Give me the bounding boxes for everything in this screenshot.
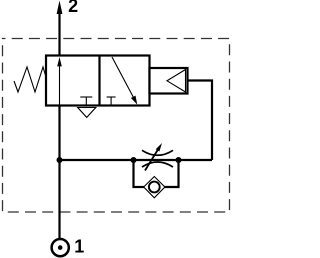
valve U1 body <box>46 56 150 106</box>
valve right-position blocked port T <box>107 96 116 98</box>
junction node right of throttle <box>176 157 182 163</box>
port 1 center dot <box>58 245 63 250</box>
check valve ball <box>149 182 160 193</box>
wire: bypass bottom left segment <box>133 186 147 188</box>
exhaust vent triangle port 3 <box>78 108 96 118</box>
pilot actuator box <box>150 68 188 94</box>
pilot triangle <box>167 70 186 93</box>
wire: horizontal branch line <box>60 159 213 161</box>
throttle valve arcs <box>142 150 173 155</box>
junction node at main line <box>57 157 63 163</box>
valve left-position blocked port T <box>80 96 92 98</box>
wire: port 2 line above valve <box>58 10 60 56</box>
junction node left of throttle <box>131 157 137 163</box>
port 1 circle <box>52 239 69 256</box>
valve right-position exhaust path arrow <box>112 57 134 98</box>
valve divider <box>98 56 100 106</box>
dashed enclosure frame <box>3 39 230 213</box>
throttle adjustment arrow <box>145 147 160 171</box>
valve left-position flow arrow 1->2 <box>59 63 61 105</box>
return spring <box>14 67 46 92</box>
svg-text:1: 1 <box>74 237 84 257</box>
wire: bypass left drop <box>132 160 134 188</box>
wire: bypass bottom right segment <box>163 186 180 188</box>
wire: bypass right drop <box>177 160 179 188</box>
check valve seat diamond <box>144 177 165 198</box>
wire: pilot line to the right and down <box>188 81 213 161</box>
svg-text:2: 2 <box>68 0 78 16</box>
wire: valve bottom to port 1 <box>58 106 60 240</box>
arrow port 2 <box>57 1 63 15</box>
